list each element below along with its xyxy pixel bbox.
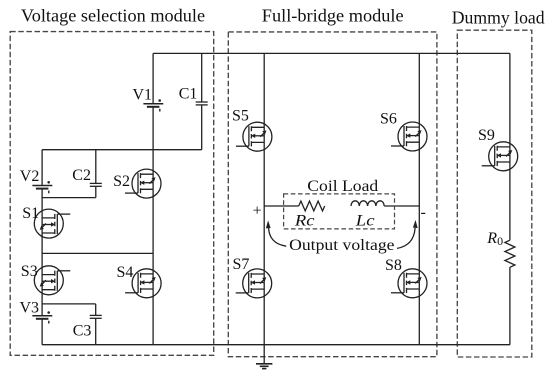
- resistor R0: [505, 240, 515, 267]
- module box: Dummy load: [457, 30, 532, 357]
- capacitor C3: [90, 315, 102, 318]
- svg-text:S4: S4: [117, 264, 134, 281]
- wire: C2 branch: [95, 150, 97, 198]
- module box: Voltage selection module: [10, 32, 214, 356]
- svg-text:S3: S3: [21, 263, 38, 280]
- inductor Lc: [351, 201, 384, 206]
- capacitor C2: [90, 183, 102, 186]
- MOSFET S1: [34, 209, 70, 238]
- MOSFET S2: [125, 169, 161, 198]
- coil load dashed box: [284, 194, 395, 229]
- wire: S1/S2 source node wire: [42, 252, 153, 254]
- battery V1: [143, 99, 163, 111]
- wire: C1 branch: [201, 53, 203, 149]
- svg-text:S2: S2: [113, 173, 130, 190]
- wire: left column V2/S1/S3/V3 branch: [41, 150, 43, 345]
- wire: coil load output wire right segment: [384, 205, 419, 207]
- wire: full-bridge right leg S6/S8: [418, 53, 420, 344]
- wire: middle column V1/S2/S4 branch: [152, 53, 154, 344]
- svg-text:Dummy load: Dummy load: [452, 8, 545, 28]
- svg-text:S1: S1: [22, 205, 39, 222]
- svg-text:V1: V1: [133, 86, 153, 103]
- wire: top bus (V1+ to dummy load): [153, 52, 510, 54]
- wire: dummy load branch: [509, 53, 511, 344]
- capacitor C1: [196, 102, 208, 105]
- svg-text:Lc: Lc: [355, 213, 375, 230]
- wire: V2-/C2- junction wire: [42, 197, 96, 199]
- battery V2: [32, 181, 52, 193]
- svg-text:Output voltage: Output voltage: [289, 237, 394, 254]
- svg-text:V3: V3: [20, 299, 40, 316]
- wire: coil load output wire left segment: [264, 205, 299, 207]
- battery V3: [32, 311, 52, 323]
- wire: node wire V1-/V2+/C2/C1: [42, 149, 202, 151]
- svg-text:S5: S5: [232, 108, 249, 125]
- MOSFET S7: [236, 269, 272, 298]
- MOSFET S3: [34, 266, 70, 295]
- svg-text:S8: S8: [385, 257, 402, 274]
- wire: S3-/V3+/C3 node wire: [42, 303, 96, 305]
- arrow: output voltage right (-): [397, 220, 418, 249]
- svg-text:S6: S6: [380, 110, 397, 127]
- MOSFET S9: [482, 142, 518, 171]
- svg-text:C3: C3: [73, 323, 92, 340]
- module box: Full-bridge module: [228, 32, 437, 357]
- svg-text:S7: S7: [233, 256, 250, 273]
- MOSFET S4: [125, 269, 161, 298]
- svg-text:Full-bridge module: Full-bridge module: [262, 6, 404, 26]
- svg-text:-: -: [421, 204, 426, 221]
- wire: C3 branch: [95, 304, 97, 345]
- svg-text:C2: C2: [72, 167, 91, 184]
- MOSFET S6: [391, 122, 427, 151]
- arrow: output voltage left (+): [266, 220, 286, 246]
- svg-text:Voltage selection module: Voltage selection module: [21, 6, 205, 26]
- svg-text:Coil Load: Coil Load: [307, 178, 378, 195]
- svg-text:+: +: [253, 203, 262, 220]
- MOSFET S8: [391, 269, 427, 298]
- wire: full-bridge left leg S5/S7: [263, 53, 265, 344]
- MOSFET S5: [236, 122, 272, 151]
- svg-text:C1: C1: [179, 85, 198, 102]
- svg-text:S9: S9: [478, 127, 495, 144]
- resistor Rc: [299, 201, 325, 211]
- wire: bottom bus (ground rail): [42, 344, 510, 346]
- svg-text:Rc: Rc: [294, 213, 315, 230]
- ground: [256, 345, 272, 369]
- svg-text:V2: V2: [20, 168, 40, 185]
